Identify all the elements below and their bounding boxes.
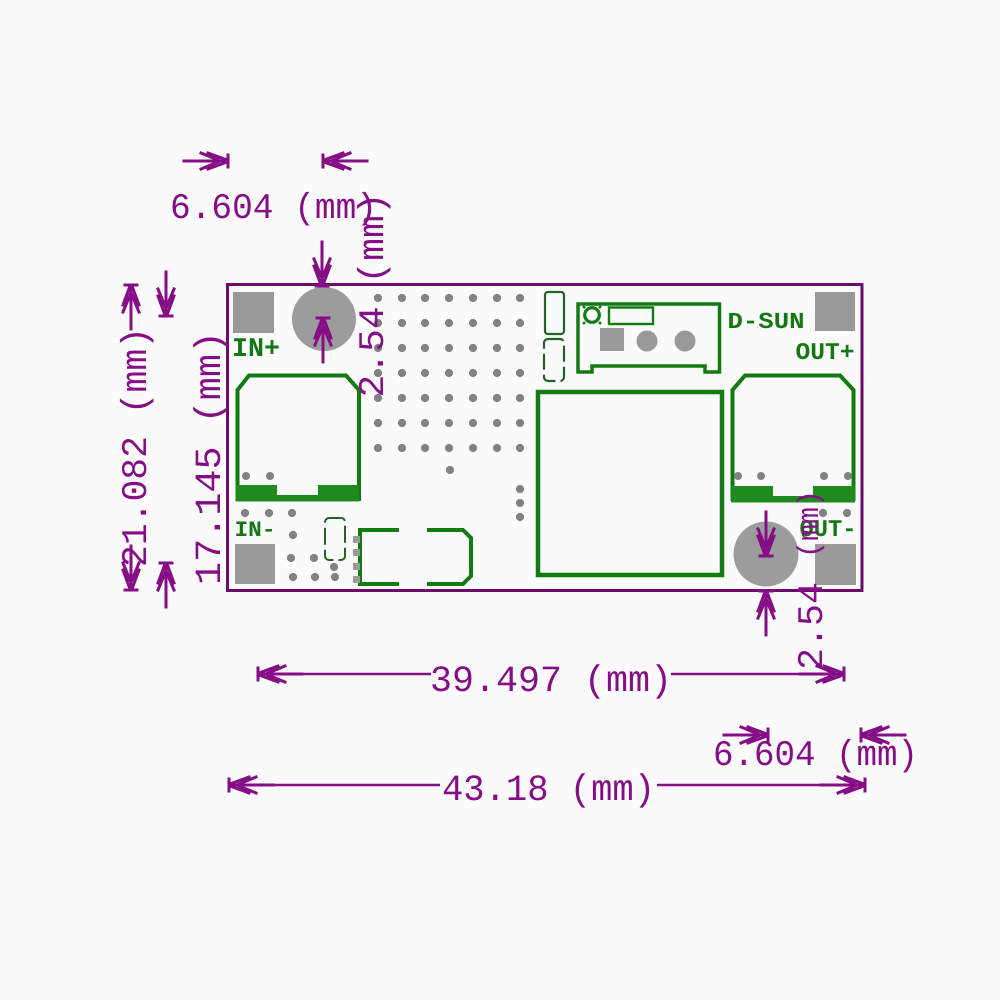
svg-text:(mm): (mm)	[794, 490, 828, 558]
via dot grid	[374, 294, 524, 452]
svg-text:2.54: 2.54	[792, 582, 833, 670]
svg-text:D-SUN: D-SUN	[728, 309, 805, 335]
dimension 17.145 mm arrow down	[158, 272, 174, 316]
dimension 43.18 mm arrow right	[821, 777, 865, 793]
dimension 2.54 mm bottom-right arrow up	[758, 591, 774, 635]
dimension 43.18 mm line right	[657, 784, 865, 786]
pad IN-	[235, 544, 275, 584]
trimpot window	[609, 308, 653, 325]
dimension 2.54 mm top arrow up	[315, 318, 331, 362]
dimension 39.497 mm arrow right	[800, 666, 844, 682]
svg-text:43.18 (mm): 43.18 (mm)	[442, 770, 655, 812]
capacitor C1 input electrolytic	[292, 287, 356, 351]
svg-text:2.54 (mm): 2.54 (mm)	[353, 193, 394, 398]
inductor L1 (large square)	[538, 392, 722, 575]
resistor R1	[545, 292, 564, 334]
IC U1 (bottom middle package)	[353, 528, 471, 586]
resistor R2	[544, 339, 564, 381]
via dots near IN-	[241, 509, 339, 581]
dimension 43.18 mm line left	[229, 784, 440, 786]
trimpot pad square	[600, 328, 624, 351]
dimension 43.18 mm arrow left	[229, 777, 273, 793]
svg-text:17.145 (mm): 17.145 (mm)	[190, 331, 232, 585]
diode D1 body (input side, chamfered package)	[236, 376, 359, 502]
dimension 21.082 mm left arrow down	[123, 546, 139, 590]
svg-text:IN+: IN+	[232, 335, 280, 365]
resistor R3	[325, 518, 345, 560]
trimpot VR1 (D-SUN block)	[578, 304, 720, 372]
dimension 6.604 mm top-left arrow left	[323, 153, 367, 169]
dimension 6.604 mm bottom-right arrow left	[861, 727, 905, 743]
svg-text:6.604 (mm): 6.604 (mm)	[713, 735, 918, 776]
dimension 39.497 mm line right	[671, 673, 844, 675]
dimension 39.497 mm arrow left	[258, 666, 302, 682]
dimension 6.604 mm bottom-right arrow right	[724, 727, 768, 743]
trimpot screw	[585, 308, 600, 323]
via dots near OUT-	[819, 509, 851, 517]
dimension 2.54 mm top arrow down	[314, 242, 330, 286]
svg-text:IN-: IN-	[235, 518, 276, 543]
via dot single below grid	[446, 466, 454, 474]
svg-text:21.082 (mm): 21.082 (mm)	[116, 327, 157, 567]
trimpot pin circle 2	[675, 331, 696, 352]
pad OUT+	[815, 292, 855, 331]
diode D2 body (output side, chamfered package)	[731, 376, 855, 503]
pad OUT-	[815, 544, 856, 585]
svg-text:39.497 (mm): 39.497 (mm)	[430, 661, 672, 703]
svg-text:6.604 (mm): 6.604 (mm)	[170, 188, 377, 229]
pad IN+	[233, 292, 274, 333]
via dot column right	[516, 485, 524, 521]
capacitor C2 output electrolytic	[734, 522, 799, 587]
dimension 17.145 mm arrow up	[158, 563, 174, 607]
dimension 21.082 mm left arrow up	[123, 285, 139, 329]
trimpot pin circle 1	[637, 331, 658, 352]
dimension 6.604 mm top-left arrow right	[184, 153, 228, 169]
dimension 2.54 mm bottom-right arrow down	[758, 512, 774, 556]
PCB board outline	[228, 285, 863, 591]
dimension 39.497 mm line left	[258, 673, 431, 675]
svg-text:OUT+: OUT+	[796, 340, 855, 367]
